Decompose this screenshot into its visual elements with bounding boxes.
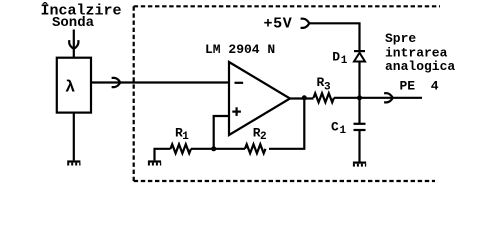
svg-text:analogica: analogica — [385, 59, 455, 74]
svg-text:λ: λ — [65, 79, 75, 98]
svg-text:1: 1 — [182, 131, 189, 143]
svg-text:D: D — [332, 50, 340, 65]
svg-text:1: 1 — [340, 125, 347, 137]
svg-text:3: 3 — [324, 82, 331, 94]
svg-text:Spre: Spre — [385, 31, 416, 46]
svg-text:+5V: +5V — [264, 16, 293, 33]
svg-text:1: 1 — [341, 55, 348, 67]
svg-text:C: C — [331, 120, 339, 135]
svg-text:LM 2904 N: LM 2904 N — [205, 42, 275, 57]
svg-text:Sonda: Sonda — [52, 15, 95, 31]
svg-text:PE 4: PE 4 — [400, 79, 439, 94]
svg-text:2: 2 — [260, 131, 267, 143]
